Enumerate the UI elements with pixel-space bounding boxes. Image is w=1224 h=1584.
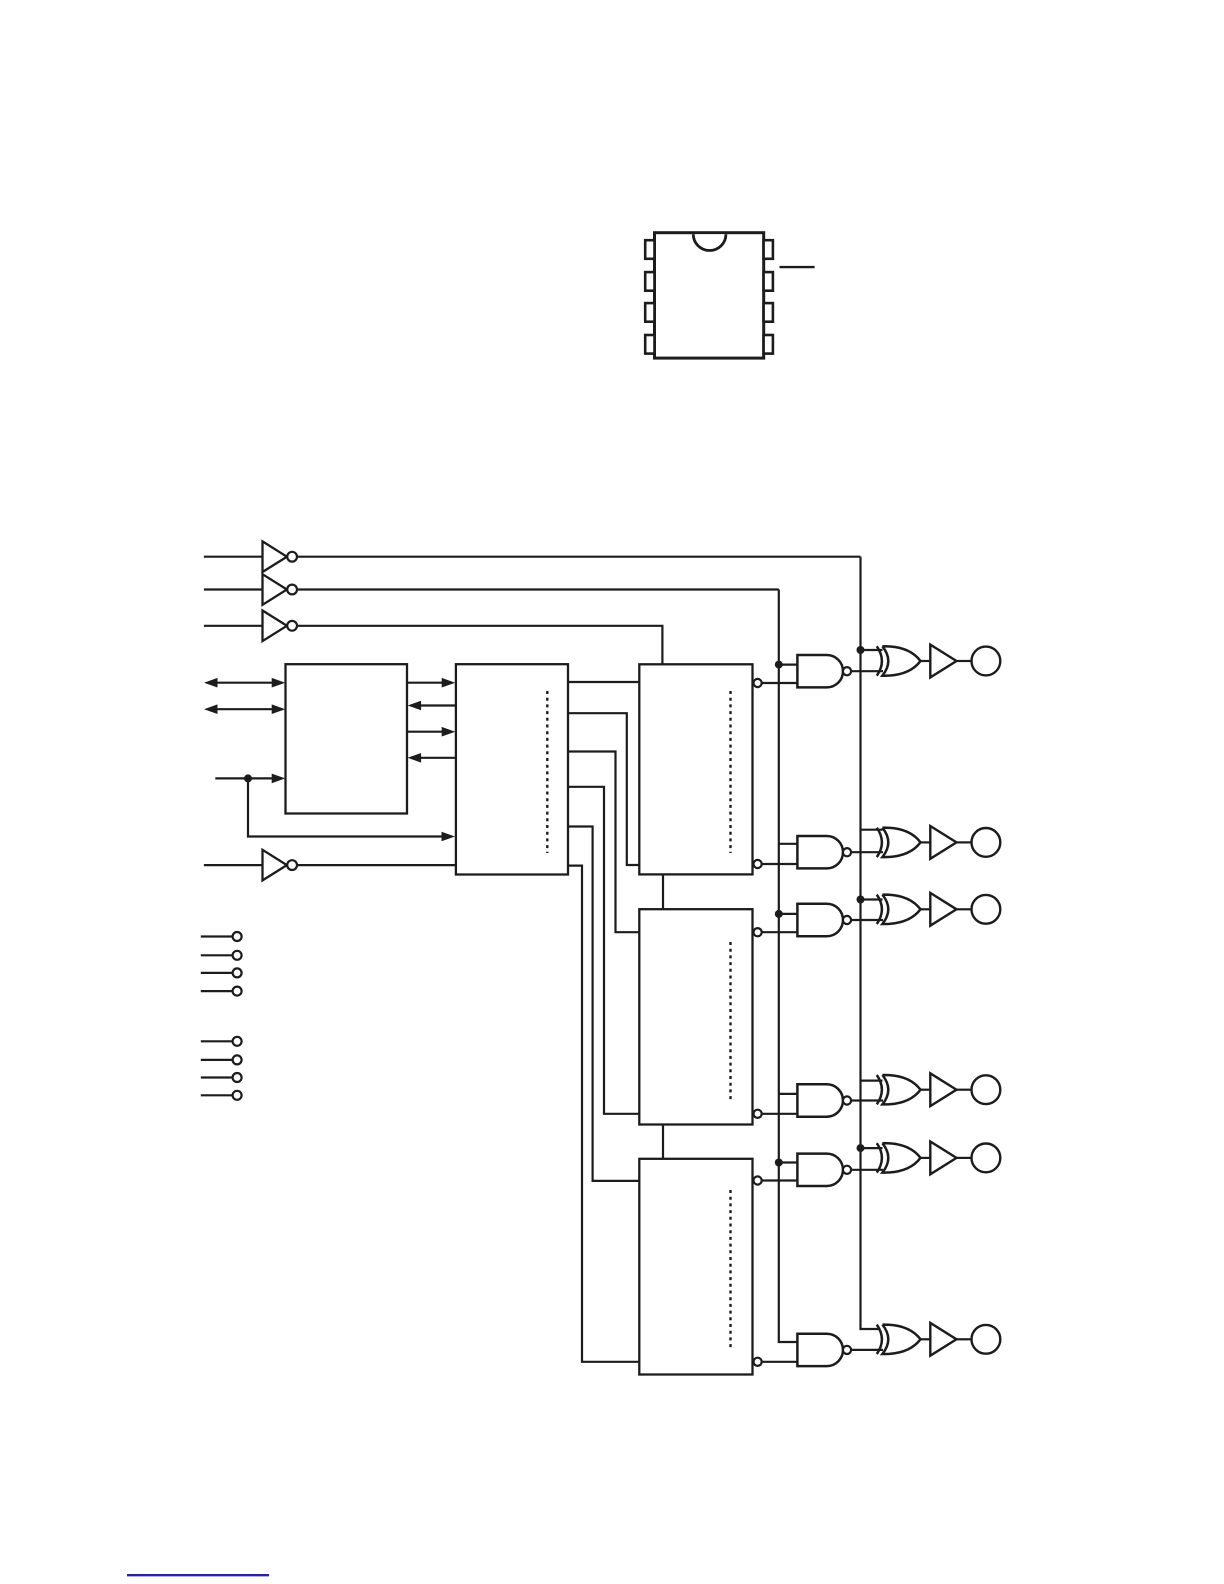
inverter U3 (input A1) output bubble xyxy=(287,585,297,595)
buffer row5 xyxy=(930,1142,956,1175)
NAND gate row4 xyxy=(797,1084,843,1116)
XOR gate row6 xyxy=(882,1325,920,1354)
arrowhead into block1 xyxy=(272,774,286,784)
inverter U3 (input A1) xyxy=(263,574,287,605)
wire vertical net L2 (from inverter U2) xyxy=(861,557,880,1329)
wire buffer row1 output to pad xyxy=(957,660,972,662)
wire block2 to block1 bus 2 xyxy=(414,704,456,706)
terminal T8 open circle xyxy=(233,1091,242,1100)
wire XOR row5 output to buffer xyxy=(921,1157,931,1159)
arrowhead bus2 into block1 xyxy=(408,701,422,711)
XOR gate row5 xyxy=(882,1143,920,1172)
NAND gate row6 xyxy=(797,1334,843,1366)
junction dot net L2 row1 xyxy=(857,646,865,654)
wire inverter U2 output to vertical net L2 xyxy=(297,556,861,558)
terminal T2 open circle xyxy=(233,951,242,960)
wire buffer row3 output to pad xyxy=(957,908,972,910)
NAND gate row2 xyxy=(797,836,843,868)
inverter U3 (input A1) input wire xyxy=(204,588,263,590)
block U9 register bank 2 internal dotted divider xyxy=(729,942,731,1100)
wire net L2 tap to XOR row5 top input xyxy=(861,1147,883,1149)
wire block2 output 1 to block3 input xyxy=(568,681,639,683)
wire NAND row2 output to XOR xyxy=(851,851,883,853)
IC package U1 right pin 8 xyxy=(764,240,773,259)
IC package U1 left pin 4 xyxy=(645,335,654,354)
terminal T3 open circle xyxy=(233,968,242,977)
buffer row6 xyxy=(930,1323,956,1356)
wire buffer row6 output to pad xyxy=(957,1338,972,1340)
terminal T7 open circle xyxy=(233,1073,242,1082)
buffer row3 xyxy=(930,893,956,926)
wire block2 to block1 bus 4 xyxy=(414,757,456,759)
wire bidirectional bus SCL xyxy=(212,708,278,710)
wire XOR row1 output to buffer xyxy=(921,660,931,662)
IC package U1 body (DIP-8 top view) xyxy=(655,233,764,358)
XOR gate row3 input arc xyxy=(877,895,882,924)
arrowhead into block2 lower input xyxy=(442,832,456,842)
wire NAND row3 output to XOR xyxy=(851,919,883,921)
wire net L2 tap to XOR row1 top input xyxy=(861,649,883,651)
NAND gate row3 output bubble xyxy=(843,916,851,924)
block U10 register bank 3 xyxy=(639,1159,752,1375)
arrowhead bus3 into block2 xyxy=(442,727,456,737)
output pad P3 xyxy=(972,895,1001,924)
wire inverter U4 output to control block top xyxy=(297,626,662,665)
inverter U2 (input A2) xyxy=(263,541,287,572)
wire register bubble to NAND row4 bottom input xyxy=(762,1113,798,1115)
block U9 register bank 2 xyxy=(639,909,752,1124)
IC package U1 pin-1 notch xyxy=(693,234,726,250)
block U10 register bank 3 internal dotted divider xyxy=(729,1190,731,1350)
wire net L1 tap to NAND row2 top input xyxy=(779,843,798,845)
NAND gate row3 xyxy=(797,904,843,936)
wire buffer row5 output to pad xyxy=(957,1157,972,1159)
XOR gate row3 xyxy=(882,895,920,924)
wire NAND row4 output to XOR xyxy=(851,1099,883,1101)
wire block1 to block2 bus 3 xyxy=(407,731,448,733)
buffer row4 xyxy=(930,1073,956,1106)
XOR gate row4 xyxy=(882,1075,920,1104)
wire net L1 tap to NAND row3 top input xyxy=(779,913,798,915)
terminal T1 wire xyxy=(201,935,233,937)
terminal T4 open circle xyxy=(233,987,242,996)
terminal T8 wire xyxy=(201,1094,233,1096)
arrowhead SCL left xyxy=(204,704,218,714)
NAND gate row2 output bubble xyxy=(843,848,851,856)
IC package U1 right pin 7 xyxy=(764,272,773,291)
junction dot net L2 row5 xyxy=(857,1144,865,1152)
block U8 register bank 1 internal dotted divider xyxy=(729,691,731,853)
inverter U4 (input A0) output bubble xyxy=(287,621,297,631)
terminal T6 open circle xyxy=(233,1055,242,1064)
IC package pin label leader line xyxy=(780,266,815,268)
terminal T3 wire xyxy=(201,972,233,974)
NAND gate row1 xyxy=(797,655,843,687)
wire vertical net L1 (from inverter U3) xyxy=(779,590,798,1343)
buffer row1 xyxy=(930,645,956,678)
junction dot on input wire xyxy=(244,774,252,782)
block U9 register bank 2 output bubble 2 xyxy=(754,1110,762,1118)
NAND gate row1 output bubble xyxy=(843,667,851,675)
hyperlink underline (bottom left) xyxy=(127,1574,269,1576)
IC package U1 right pin 5 xyxy=(764,335,773,354)
wire block1 to block2 bus 1 xyxy=(407,682,448,684)
NAND gate row6 output bubble xyxy=(843,1346,851,1354)
wire register bubble to NAND row2 bottom input xyxy=(762,863,798,865)
XOR gate row1 input arc xyxy=(877,646,882,675)
output pad P5 xyxy=(972,1144,1001,1173)
wire block2 output 6 routed to block5 lower input xyxy=(568,866,639,1362)
block U7 internal dotted divider xyxy=(546,691,548,853)
block U10 register bank 3 output bubble 1 xyxy=(754,1176,762,1184)
output pad P2 xyxy=(972,828,1001,857)
IC package U1 left pin 3 xyxy=(645,303,654,322)
block U9 register bank 2 output bubble 1 xyxy=(754,928,762,936)
IC package U1 right pin 6 xyxy=(764,303,773,322)
wire net L1 tap to NAND row5 top input xyxy=(779,1161,798,1163)
arrowhead SCL right xyxy=(272,704,286,714)
wire input with junction to block1 xyxy=(215,777,278,779)
inverter U2 (input A2) input wire xyxy=(204,556,263,558)
XOR gate row4 input arc xyxy=(877,1075,882,1104)
terminal T6 wire xyxy=(201,1059,233,1061)
wire register bubble to NAND row1 bottom input xyxy=(762,682,798,684)
wire XOR row6 output to buffer xyxy=(921,1338,931,1340)
block U8 register bank 1 output bubble 1 xyxy=(754,679,762,687)
inverter U2 (input A2) output bubble xyxy=(287,552,297,562)
wire block2 output 4 routed to block4 lower input xyxy=(568,787,639,1114)
wire register bubble to NAND row3 bottom input xyxy=(762,931,798,933)
output pad P6 xyxy=(972,1325,1001,1354)
wire net L2 tap to XOR row3 top input xyxy=(861,898,883,900)
terminal T7 wire xyxy=(201,1076,233,1078)
junction dot net L2 row3 xyxy=(857,896,865,904)
wire inverter U6 output to block2 xyxy=(297,864,456,866)
NAND gate row4 output bubble xyxy=(843,1096,851,1104)
wire block2 output 2 routed to block3 lower input xyxy=(568,713,639,865)
inverter U6 (write protect) output bubble xyxy=(287,860,297,870)
wire NAND row5 output to XOR xyxy=(851,1169,883,1171)
terminal T1 open circle xyxy=(233,932,242,941)
wire block2 output 3 routed to block4 upper input xyxy=(568,752,639,933)
wire buffer row2 output to pad xyxy=(957,841,972,843)
block U8 register bank 1 output bubble 2 xyxy=(754,860,762,868)
wire from junction down and right into block2 xyxy=(248,778,448,836)
wire register bubble to NAND row6 bottom input xyxy=(762,1361,798,1363)
NAND gate row5 output bubble xyxy=(843,1166,851,1174)
block U10 register bank 3 output bubble 2 xyxy=(754,1358,762,1366)
wire block4 to block5 connector xyxy=(662,1125,664,1159)
wire buffer row4 output to pad xyxy=(957,1089,972,1091)
wire XOR row4 output to buffer xyxy=(921,1089,931,1091)
arrowhead SDA left xyxy=(204,678,218,688)
block U7 control block xyxy=(456,664,568,874)
arrowhead SDA right xyxy=(272,678,286,688)
terminal T4 wire xyxy=(201,990,233,992)
output pad P1 xyxy=(972,647,1001,676)
wire block3 to block4 connector xyxy=(662,874,664,909)
wire net L1 tap to NAND row1 top input xyxy=(779,663,798,665)
arrowhead bus1 into block2 xyxy=(442,678,456,688)
wire NAND row6 output to XOR xyxy=(851,1349,883,1351)
wire inverter U3 output to vertical net L1 xyxy=(297,588,779,590)
junction dot net L1 row1 xyxy=(775,661,783,669)
XOR gate row5 input arc xyxy=(877,1143,882,1172)
wire net L2 tap to XOR row2 top input xyxy=(861,829,883,831)
wire XOR row3 output to buffer xyxy=(921,908,931,910)
NAND gate row5 xyxy=(797,1154,843,1186)
inverter U4 (input A0) input wire xyxy=(204,625,263,627)
terminal T2 wire xyxy=(201,954,233,956)
terminal T5 wire xyxy=(201,1040,233,1042)
wire NAND row1 output to XOR xyxy=(851,670,883,672)
junction dot net L1 row3 xyxy=(775,910,783,918)
wire register bubble to NAND row5 bottom input xyxy=(762,1179,798,1181)
buffer row2 xyxy=(930,826,956,859)
XOR gate row6 input arc xyxy=(877,1325,882,1354)
output pad P4 xyxy=(972,1075,1001,1104)
XOR gate row2 xyxy=(882,828,920,857)
XOR gate row2 input arc xyxy=(877,828,882,857)
wire block2 output 5 routed to block5 upper input xyxy=(568,827,639,1181)
block U5 interface block xyxy=(286,664,408,813)
block U8 register bank 1 xyxy=(639,664,752,874)
wire net L2 tap to XOR row4 top input xyxy=(861,1079,883,1081)
terminal T5 open circle xyxy=(233,1037,242,1046)
inverter U6 (write protect) xyxy=(263,850,287,881)
XOR gate row1 xyxy=(882,646,920,675)
arrowhead bus4 into block1 xyxy=(408,753,422,763)
inverter U6 (write protect) input wire xyxy=(204,864,263,866)
inverter U4 (input A0) xyxy=(263,611,287,642)
wire bidirectional bus SDA xyxy=(212,682,278,684)
junction dot net L1 row5 xyxy=(775,1159,783,1167)
IC package U1 left pin 1 xyxy=(645,240,654,259)
wire net L1 tap to NAND row4 top input xyxy=(779,1093,798,1095)
IC package U1 left pin 2 xyxy=(645,272,654,291)
wire XOR row2 output to buffer xyxy=(921,841,931,843)
